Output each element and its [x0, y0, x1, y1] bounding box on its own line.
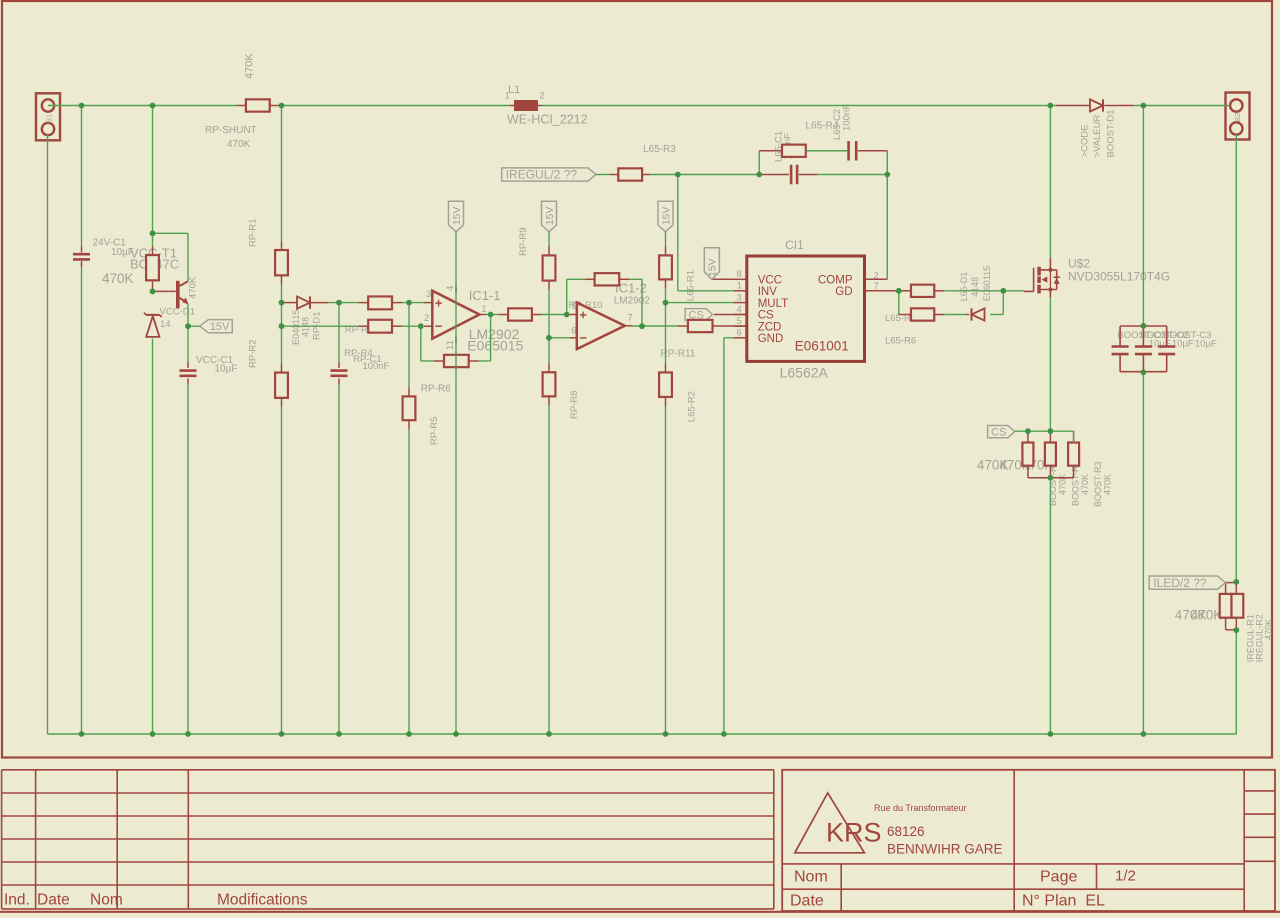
svg-text:B1: B1: [45, 114, 54, 123]
svg-text:INV: INV: [758, 286, 778, 298]
svg-text:NVD3055L170T4G: NVD3055L170T4G: [1068, 270, 1170, 284]
svg-text:CI1: CI1: [785, 238, 804, 252]
svg-text:N° Plan EL: N° Plan EL: [1022, 893, 1105, 910]
svg-text:CS: CS: [991, 427, 1006, 439]
svg-text:470K: 470K: [188, 276, 199, 299]
svg-text:10µF: 10µF: [215, 364, 238, 375]
svg-text:B2: B2: [1233, 113, 1242, 122]
svg-text:4148: 4148: [301, 317, 311, 337]
svg-text:2: 2: [540, 91, 545, 101]
svg-text:L65-R6: L65-R6: [885, 336, 916, 347]
svg-text:1/2: 1/2: [1115, 868, 1136, 885]
svg-text:470K: 470K: [1191, 607, 1223, 622]
svg-text:LM2902: LM2902: [614, 295, 651, 306]
svg-text:Nom: Nom: [794, 869, 828, 886]
svg-text:CS: CS: [758, 310, 774, 322]
svg-text:ILED/2 ??: ILED/2 ??: [1153, 576, 1207, 590]
svg-text:15V: 15V: [210, 321, 230, 333]
svg-text:BENNWIHR GARE: BENNWIHR GARE: [887, 842, 1003, 857]
svg-text:BOOST-D1: BOOST-D1: [1106, 109, 1117, 157]
svg-text:BOOST-R1: BOOST-R1: [1048, 460, 1058, 506]
svg-text:RP-R1: RP-R1: [248, 218, 259, 247]
svg-text:COMP: COMP: [818, 275, 853, 287]
svg-text:L65-R1: L65-R1: [686, 270, 697, 301]
svg-text:BOOST-R3: BOOST-R3: [1093, 461, 1103, 507]
svg-text:E061001: E061001: [795, 338, 849, 353]
svg-text:7: 7: [627, 312, 632, 323]
svg-text:470K: 470K: [227, 139, 251, 150]
svg-text:RP-R9: RP-R9: [518, 227, 529, 256]
svg-text:L65-R2: L65-R2: [687, 391, 698, 422]
svg-text:RP-R5: RP-R5: [429, 416, 440, 445]
svg-text:>CODE: >CODE: [1080, 125, 1091, 158]
svg-text:68126: 68126: [887, 824, 925, 839]
svg-text:11: 11: [445, 340, 456, 350]
svg-text:470K: 470K: [102, 271, 134, 286]
svg-text:BOOST-R2: BOOST-R2: [1071, 460, 1081, 506]
svg-text:Modifications: Modifications: [217, 892, 308, 909]
svg-text:470K: 470K: [1103, 474, 1113, 495]
svg-text:8: 8: [737, 269, 742, 280]
svg-text:Page: Page: [1040, 869, 1077, 886]
svg-text:RP-R6: RP-R6: [421, 384, 451, 395]
svg-text:15V: 15V: [544, 207, 556, 226]
svg-text:L65-R3: L65-R3: [643, 144, 676, 155]
svg-text:GND: GND: [758, 333, 784, 345]
svg-text:4: 4: [445, 286, 456, 291]
svg-text:1: 1: [481, 304, 486, 315]
svg-text:4: 4: [737, 304, 742, 315]
svg-text:E040115: E040115: [291, 310, 301, 345]
svg-text:>VALEUR: >VALEUR: [1092, 115, 1103, 158]
svg-text:KRS: KRS: [826, 818, 882, 848]
svg-text:14: 14: [160, 319, 171, 330]
svg-text:E060115: E060115: [982, 266, 992, 301]
svg-text:15V: 15V: [451, 207, 463, 226]
svg-text:WE-HCI_2212: WE-HCI_2212: [507, 113, 588, 127]
svg-text:4148: 4148: [970, 277, 980, 297]
svg-text:Date: Date: [37, 892, 70, 909]
svg-text:ZCD: ZCD: [758, 321, 782, 333]
svg-text:RP-R8: RP-R8: [569, 390, 580, 419]
svg-text:15V: 15V: [660, 207, 672, 226]
svg-text:10µF: 10µF: [1172, 338, 1194, 349]
svg-text:1: 1: [505, 91, 510, 101]
svg-text:6: 6: [737, 328, 742, 339]
svg-text:Ind.: Ind.: [4, 892, 30, 909]
svg-text:2: 2: [424, 313, 429, 324]
svg-text:L6562A: L6562A: [780, 364, 829, 380]
svg-text:MULT: MULT: [758, 298, 788, 310]
svg-text:IREGUL/2 ??: IREGUL/2 ??: [506, 168, 578, 182]
svg-text:E065015: E065015: [467, 337, 523, 353]
svg-text:Date: Date: [790, 893, 824, 910]
svg-text:VCC: VCC: [758, 275, 782, 287]
svg-text:Rue du Transformateur: Rue du Transformateur: [874, 803, 967, 813]
svg-text:100nF: 100nF: [362, 361, 389, 372]
svg-text:RP-SHUNT: RP-SHUNT: [205, 125, 257, 136]
svg-text:L65-D1: L65-D1: [959, 272, 969, 302]
svg-text:GD: GD: [835, 286, 852, 298]
svg-text:470K: 470K: [1080, 474, 1090, 495]
svg-text:3: 3: [426, 289, 431, 300]
svg-text:Nom: Nom: [90, 892, 123, 909]
svg-text:1: 1: [737, 281, 742, 292]
svg-text:15V: 15V: [707, 258, 719, 277]
svg-text:U$2: U$2: [1068, 257, 1090, 271]
svg-text:10µF: 10µF: [1195, 338, 1217, 349]
svg-text:470K: 470K: [1264, 619, 1274, 640]
svg-text:3: 3: [737, 292, 742, 303]
svg-text:470K: 470K: [244, 53, 256, 79]
svg-text:RP-R2: RP-R2: [248, 339, 259, 368]
svg-text:IC1-1: IC1-1: [469, 288, 501, 303]
svg-text:100nF: 100nF: [842, 104, 853, 131]
